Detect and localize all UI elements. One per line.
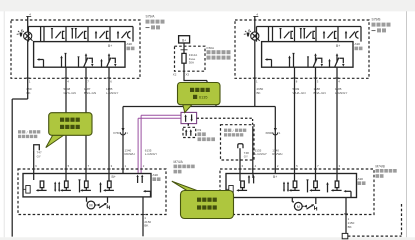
- svg-text:B+: B+: [182, 38, 186, 42]
- svg-text:GY/L-GN: GY/L-GN: [64, 91, 76, 95]
- svg-text:S79/A: S79/A: [146, 15, 156, 19]
- svg-text:GY: GY: [37, 154, 41, 158]
- svg-text:A90: A90: [153, 173, 159, 177]
- svg-text:6135: 6135: [199, 96, 207, 100]
- svg-text:BK: BK: [348, 225, 352, 229]
- svg-text:L-GN/GY: L-GN/GY: [255, 152, 267, 156]
- svg-text:BK: BK: [257, 91, 261, 95]
- svg-text:B+: B+: [336, 44, 340, 48]
- svg-text:B+: B+: [112, 175, 116, 179]
- svg-text:BK: BK: [144, 224, 148, 228]
- svg-text:M: M: [89, 204, 92, 208]
- svg-text:S79/B: S79/B: [372, 18, 382, 22]
- svg-text:A90: A90: [355, 42, 361, 46]
- svg-text:K9: K9: [198, 128, 202, 132]
- svg-text:GY: GY: [244, 155, 248, 159]
- svg-text:K50A: K50A: [207, 46, 216, 50]
- svg-text:X800: X800: [265, 131, 272, 135]
- svg-text:A90: A90: [127, 42, 133, 46]
- svg-text:M: M: [297, 205, 300, 209]
- svg-text:RD/WH: RD/WH: [125, 152, 135, 156]
- svg-text:M74/B: M74/B: [376, 164, 385, 168]
- svg-text:L-GN/GY: L-GN/GY: [106, 91, 118, 95]
- svg-text:M74/A: M74/A: [174, 160, 184, 164]
- svg-text:X760: X760: [113, 131, 120, 135]
- svg-text:X2: X2: [173, 72, 177, 76]
- svg-text:/: /: [27, 130, 28, 134]
- svg-text:/: /: [233, 129, 234, 133]
- svg-text:RD/WH: RD/WH: [272, 152, 282, 156]
- svg-text:X3: X3: [186, 72, 190, 76]
- svg-text:30A: 30A: [189, 60, 194, 64]
- svg-text:B+: B+: [108, 44, 112, 48]
- svg-text:B+: B+: [273, 175, 277, 179]
- svg-text:L-GN/GY: L-GN/GY: [145, 152, 157, 156]
- svg-text:A90: A90: [358, 177, 364, 181]
